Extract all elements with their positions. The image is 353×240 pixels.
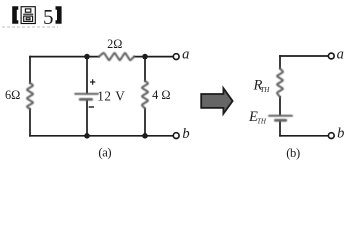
- svg-text:TH: TH: [257, 118, 267, 126]
- svg-text:b: b: [337, 126, 344, 142]
- svg-text:a: a: [182, 47, 189, 63]
- svg-text:(a): (a): [98, 145, 111, 159]
- svg-text:b: b: [182, 126, 189, 142]
- svg-text:(b): (b): [286, 146, 300, 160]
- svg-text:TH: TH: [260, 86, 270, 94]
- svg-text:2Ω: 2Ω: [107, 37, 122, 51]
- svg-text:4 Ω: 4 Ω: [152, 88, 170, 102]
- svg-text:a: a: [337, 46, 344, 62]
- svg-text:6Ω: 6Ω: [5, 88, 20, 102]
- svg-text:12 V: 12 V: [97, 88, 125, 103]
- svg-text:5: 5: [43, 5, 54, 29]
